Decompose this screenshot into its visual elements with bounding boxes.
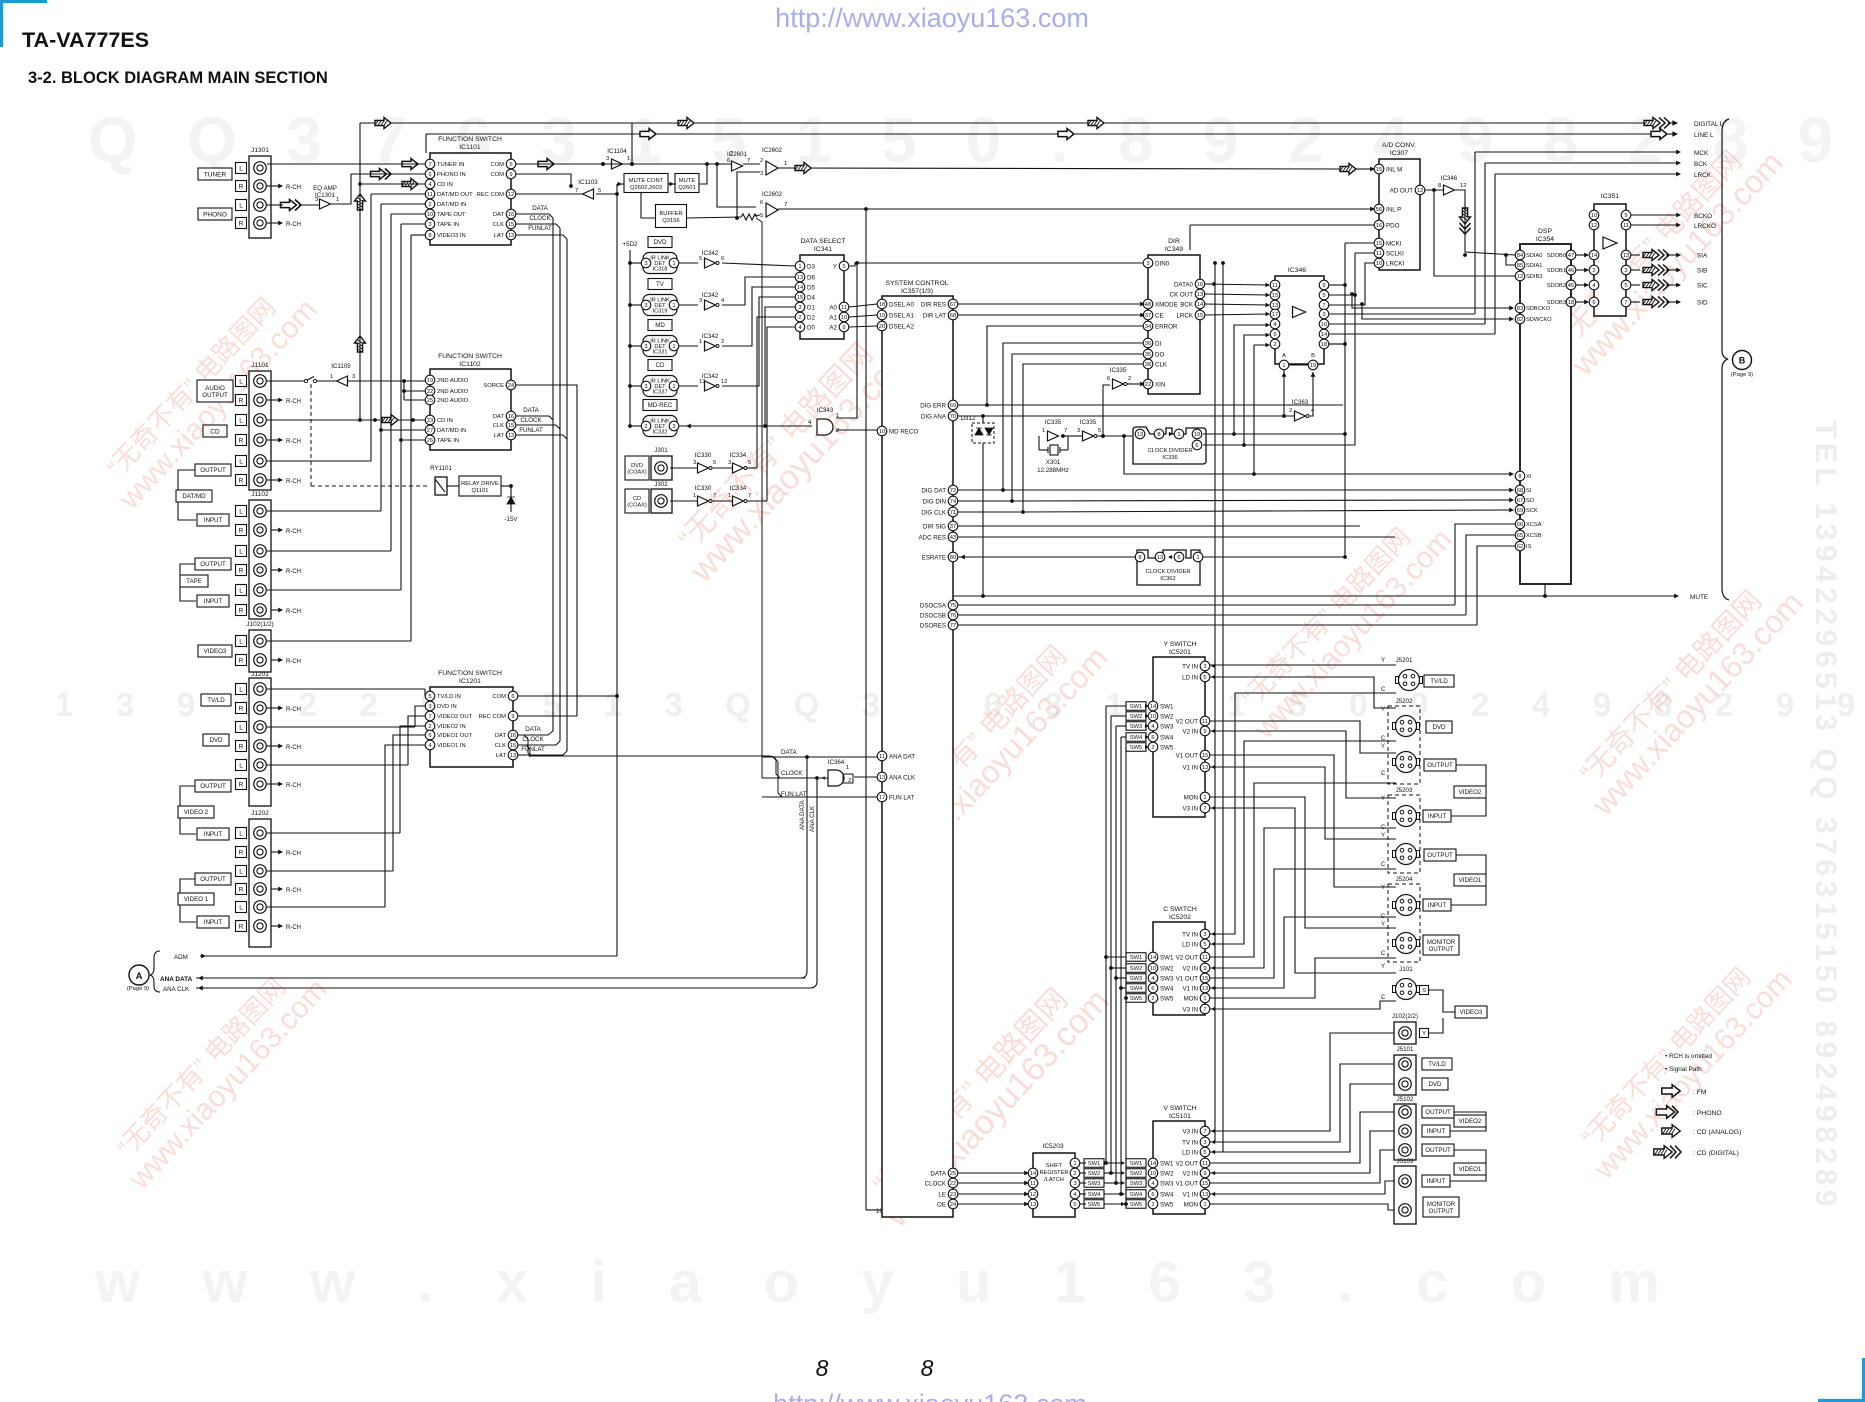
svg-text:14: 14 xyxy=(797,285,804,291)
svg-text:SW1: SW1 xyxy=(1160,703,1174,710)
wire R-CH xyxy=(267,925,280,927)
svg-text:CD: CD xyxy=(656,362,665,369)
ir link det IC337 xyxy=(630,385,643,387)
svg-text:SW2: SW2 xyxy=(1160,1170,1174,1177)
pin 34 ERROR xyxy=(1143,321,1153,331)
svg-text:1: 1 xyxy=(330,374,333,380)
svg-text:13: 13 xyxy=(1202,986,1208,992)
svg-text:Y: Y xyxy=(1381,964,1385,970)
svg-text:5: 5 xyxy=(713,460,716,466)
pin 10/9 xyxy=(1589,210,1599,220)
svg-text:SW1: SW1 xyxy=(1160,954,1174,961)
svg-text:D6: D6 xyxy=(807,274,815,281)
svg-text:12: 12 xyxy=(1460,183,1466,189)
svg-text:3: 3 xyxy=(428,704,431,710)
svg-text:MONITOR: MONITOR xyxy=(1427,940,1456,946)
svg-text:R-CH: R-CH xyxy=(286,783,301,789)
svg-text:MD-REC: MD-REC xyxy=(648,402,673,409)
node L xyxy=(236,902,247,913)
svg-text:3: 3 xyxy=(644,344,647,350)
wire y path xyxy=(1210,808,1396,973)
wire R-CH xyxy=(267,659,280,661)
svg-text:SCK: SCK xyxy=(1526,508,1538,514)
svg-text:FUN LAT: FUN LAT xyxy=(889,794,915,801)
bracket page B xyxy=(1722,119,1729,600)
svg-text:V1 IN: V1 IN xyxy=(1183,1191,1198,1198)
pin 13 V1 IN xyxy=(1200,983,1210,993)
svg-text:http://www.xiaoyu163.com: http://www.xiaoyu163.com xyxy=(773,1389,1087,1402)
svg-text:A/D CONV.: A/D CONV. xyxy=(1382,142,1416,149)
svg-text:1: 1 xyxy=(798,264,801,270)
svg-text:SDOB0: SDOB0 xyxy=(1547,253,1566,259)
svg-text:7: 7 xyxy=(747,158,750,164)
pin 6 SW4 xyxy=(1148,1189,1158,1199)
node SW2 xyxy=(1126,964,1146,973)
svg-text:XMODE: XMODE xyxy=(1155,301,1178,308)
svg-text:J102(2/2): J102(2/2) xyxy=(1392,1013,1418,1020)
svg-text:15: 15 xyxy=(508,222,514,228)
svg-text:DI: DI xyxy=(1155,340,1161,347)
svg-text:VIDEO2: VIDEO2 xyxy=(1459,789,1482,796)
svg-text:8: 8 xyxy=(921,1355,934,1381)
wire j302 xyxy=(670,500,697,502)
svg-text:1: 1 xyxy=(846,765,849,771)
svg-text:XI: XI xyxy=(1526,474,1532,480)
svg-text:IC364: IC364 xyxy=(828,759,845,766)
wire 2nd audio pins xyxy=(404,380,425,382)
svg-text:DATA: DATA xyxy=(525,726,541,733)
svg-text:7: 7 xyxy=(713,493,716,499)
svg-text:J5203: J5203 xyxy=(1396,787,1413,794)
node L xyxy=(236,506,247,517)
pin 37 CE xyxy=(1143,310,1153,320)
legend CD DIGITAL xyxy=(1654,1146,1681,1159)
svg-text:2ND AUDIO: 2ND AUDIO xyxy=(437,389,469,395)
wire adout xyxy=(1425,189,1443,191)
svg-text:L: L xyxy=(239,904,243,911)
svg-text:R-CH: R-CH xyxy=(286,479,301,485)
pin 15/5 xyxy=(1270,290,1280,300)
svg-text:18: 18 xyxy=(1568,300,1574,306)
svg-text:DAT: DAT xyxy=(495,733,507,739)
svg-text:77: 77 xyxy=(950,623,956,629)
svg-text:17: 17 xyxy=(1272,312,1278,318)
pin 2 D2 xyxy=(795,312,805,322)
svg-text:V2 OUT: V2 OUT xyxy=(1176,954,1199,961)
svg-text:3: 3 xyxy=(1624,268,1627,274)
svg-text:43: 43 xyxy=(950,535,956,541)
node MD-REC xyxy=(643,400,677,411)
pin 14 BCK xyxy=(1195,299,1205,309)
svg-text:ERROR: ERROR xyxy=(1155,323,1178,330)
svg-text:6: 6 xyxy=(760,200,763,206)
node L xyxy=(236,415,247,426)
svg-text:15: 15 xyxy=(1376,241,1382,247)
wire BCK xyxy=(1485,162,1678,164)
signal arrow PHONO eqamp xyxy=(281,200,302,211)
svg-text:16: 16 xyxy=(1321,322,1327,328)
wire c path xyxy=(1210,828,1396,968)
node SW3 xyxy=(1126,722,1146,731)
svg-text:VIDEO3: VIDEO3 xyxy=(1460,1009,1483,1016)
svg-text:IC307: IC307 xyxy=(1390,150,1408,157)
pin 16 DAT xyxy=(508,730,518,740)
svg-text:IC319: IC319 xyxy=(653,309,668,315)
svg-text:Y: Y xyxy=(1381,833,1385,839)
svg-text:5: 5 xyxy=(699,256,702,262)
buffer IC342 IC318 xyxy=(679,262,698,264)
wire stubs to IC1101 xyxy=(360,183,425,185)
svg-text:3: 3 xyxy=(644,261,647,267)
node AUDIO OUTPUT xyxy=(197,380,233,402)
wire R-CH xyxy=(267,399,280,401)
svg-text:A: A xyxy=(136,971,143,982)
svg-text:1: 1 xyxy=(1073,1161,1076,1167)
pin 12 SDIB3 xyxy=(1515,271,1525,281)
pin 14 xyxy=(1028,1168,1038,1178)
node OUTPUT dat xyxy=(195,464,231,476)
svg-text:74: 74 xyxy=(950,499,957,505)
svg-text:1: 1 xyxy=(728,493,731,499)
pin 15 INL M xyxy=(1374,164,1384,174)
svg-text:45: 45 xyxy=(1568,283,1574,289)
pin 80 ESRATE xyxy=(948,552,958,562)
pin 14 SW1 xyxy=(1148,952,1158,962)
svg-text:J5102: J5102 xyxy=(1397,1096,1414,1103)
svg-text:L: L xyxy=(239,762,243,769)
pin 68 DIR LAT xyxy=(948,310,958,320)
resistor R xyxy=(741,214,757,220)
ir link det IC331 xyxy=(630,345,643,347)
pin 43 ADC RES xyxy=(948,532,958,542)
svg-text:62: 62 xyxy=(1517,544,1523,550)
svg-text:REC COM: REC COM xyxy=(477,192,505,198)
svg-text:2: 2 xyxy=(730,151,733,157)
node R xyxy=(236,779,247,790)
pin 10 MD RECO xyxy=(877,426,887,436)
node CD xyxy=(648,360,672,371)
svg-text:3-2. BLOCK DIAGRAM MAIN SECTIO: 3-2. BLOCK DIAGRAM MAIN SECTION xyxy=(28,69,328,87)
pin 4 D0 xyxy=(795,322,805,332)
wire inlp net to pin 16 xyxy=(864,207,868,211)
svg-text:DATA: DATA xyxy=(930,1170,946,1177)
svg-text:L: L xyxy=(239,724,243,731)
svg-text:12: 12 xyxy=(1030,1192,1036,1198)
svg-text:1: 1 xyxy=(336,197,339,203)
svg-text:J1102: J1102 xyxy=(251,491,269,498)
svg-text:6: 6 xyxy=(1592,300,1595,306)
svg-text:DSEL A0: DSEL A0 xyxy=(889,301,914,308)
svg-text:L: L xyxy=(239,508,243,515)
wire DIG DAT/DIN/CLK xyxy=(958,489,1003,491)
pin 3 TAPE IN xyxy=(425,219,435,229)
svg-text:CLK: CLK xyxy=(493,423,504,429)
svg-text:VIDEO1 OUT: VIDEO1 OUT xyxy=(437,733,473,739)
pin 13 CK OUT xyxy=(1195,289,1205,299)
svg-text:B: B xyxy=(1739,356,1746,366)
svg-text:SIC: SIC xyxy=(1697,282,1708,289)
svg-text:IC354: IC354 xyxy=(1536,236,1554,243)
svg-text:70: 70 xyxy=(950,414,956,420)
svg-text:2: 2 xyxy=(1151,996,1154,1002)
svg-text:SDIA0: SDIA0 xyxy=(1526,253,1542,259)
svg-text:V SWITCH: V SWITCH xyxy=(1163,1105,1196,1112)
svg-text:J302: J302 xyxy=(654,481,668,488)
node INPUT v1 xyxy=(197,916,229,928)
svg-text:8: 8 xyxy=(1138,555,1141,561)
node INPUT v2 xyxy=(197,828,229,840)
svg-text:SO: SO xyxy=(1526,498,1535,504)
svg-text:48: 48 xyxy=(1145,302,1151,308)
svg-text:XCSB: XCSB xyxy=(1526,533,1542,539)
pin 10 SW2 xyxy=(1148,963,1158,973)
svg-text:3: 3 xyxy=(1203,1140,1206,1146)
svg-text:5: 5 xyxy=(748,460,751,466)
svg-text:85: 85 xyxy=(1517,263,1523,269)
signal arrows on line bus xyxy=(640,129,656,140)
svg-text:83: 83 xyxy=(1517,306,1523,312)
pin 6 SW4 xyxy=(1148,983,1158,993)
pin 10 SW2 xyxy=(1148,1168,1158,1178)
svg-text:J5202: J5202 xyxy=(1396,698,1413,705)
svg-text:82: 82 xyxy=(1517,317,1523,323)
pin 11 SCLKI xyxy=(1374,248,1384,258)
svg-text:37: 37 xyxy=(1145,313,1151,319)
svg-text:CLK: CLK xyxy=(1155,361,1168,368)
svg-text:-15V: -15V xyxy=(504,516,518,523)
svg-text:INL P: INL P xyxy=(1386,206,1401,213)
pin 68 SI xyxy=(1515,485,1525,495)
svg-text:10: 10 xyxy=(427,212,433,218)
node DVD xyxy=(1426,721,1452,733)
svg-text:FUNCTION SWITCH: FUNCTION SWITCH xyxy=(438,353,502,360)
svg-text:C: C xyxy=(1381,995,1386,1001)
svg-text:IC362: IC362 xyxy=(1160,576,1175,582)
svg-text:18: 18 xyxy=(1321,342,1327,348)
svg-text:R: R xyxy=(239,183,244,190)
svg-text:2ND AUDIO: 2ND AUDIO xyxy=(437,398,469,404)
svg-text:DSOCSA: DSOCSA xyxy=(920,602,947,609)
svg-text:J5103: J5103 xyxy=(1397,1158,1414,1165)
svg-text:5: 5 xyxy=(760,213,763,219)
svg-text:CLOCK DIVIDER: CLOCK DIVIDER xyxy=(1147,448,1192,454)
wire c path xyxy=(1210,783,1396,957)
pin 22 CLOCK xyxy=(948,1178,958,1188)
wire +5D2 rail xyxy=(629,250,631,426)
pin 13 xyxy=(1028,1199,1038,1209)
pin 12 xyxy=(1028,1189,1038,1199)
pin 45 SDOB2 xyxy=(1566,280,1576,290)
pin 2 SW5 xyxy=(1148,1199,1158,1209)
pin 3 TV IN xyxy=(1200,1137,1210,1147)
pin 23 CD IN xyxy=(425,415,435,425)
pin 10 SW2 xyxy=(1148,711,1158,721)
wire v path xyxy=(1210,1112,1394,1163)
svg-text:1: 1 xyxy=(627,156,630,162)
svg-text:V3 IN: V3 IN xyxy=(1183,1128,1198,1135)
svg-text:L: L xyxy=(239,417,243,424)
svg-text:BCKO: BCKO xyxy=(1694,213,1712,220)
svg-text:DIGITAL L: DIGITAL L xyxy=(1694,121,1724,128)
wire hooks xyxy=(516,416,553,420)
svg-text:2: 2 xyxy=(1592,268,1595,274)
wire mute cont wiring xyxy=(617,183,624,185)
svg-text:SW3: SW3 xyxy=(1130,724,1143,730)
wire COM9 xyxy=(516,174,571,186)
svg-text:IC337: IC337 xyxy=(653,390,668,396)
buffer IC342 IC331 xyxy=(679,345,698,347)
svg-text:Q3156: Q3156 xyxy=(662,218,679,224)
ir link det IC332 xyxy=(630,425,643,427)
pin 25 DATA xyxy=(948,1168,958,1178)
pin 13 LAT xyxy=(506,430,516,440)
svg-text:34: 34 xyxy=(1145,324,1152,330)
svg-text:13: 13 xyxy=(1137,432,1143,438)
svg-text:VIDEO2 IN: VIDEO2 IN xyxy=(437,724,466,730)
pin 5 Y xyxy=(839,261,849,271)
svg-text:11: 11 xyxy=(1202,1161,1208,1167)
pin 15 MCKI xyxy=(1374,238,1384,248)
node R xyxy=(236,395,247,406)
wire R-CH xyxy=(267,745,280,747)
svg-text:SDOB3: SDOB3 xyxy=(1547,300,1566,306)
wire y path xyxy=(1210,731,1396,798)
svg-text:3: 3 xyxy=(699,298,702,304)
svg-text:R-CH: R-CH xyxy=(286,888,301,894)
pin 5 COM xyxy=(506,159,516,169)
node VIDEO3 xyxy=(1455,1006,1487,1018)
svg-text:Q2601: Q2601 xyxy=(678,185,695,191)
pin 13 V1 IN xyxy=(1200,762,1210,772)
wire COM5 bus xyxy=(516,163,612,165)
node CD xyxy=(203,425,227,437)
wire DSEL links xyxy=(849,304,877,307)
svg-text:13: 13 xyxy=(1202,765,1208,771)
svg-text:6: 6 xyxy=(1195,443,1198,449)
svg-text:9: 9 xyxy=(1203,1171,1206,1177)
node S xyxy=(1420,986,1429,995)
pin 6 COM xyxy=(508,691,518,701)
svg-text:IC342: IC342 xyxy=(702,292,719,299)
wire DIR to IC346 xyxy=(1205,284,1268,285)
svg-text:2: 2 xyxy=(760,158,763,164)
pin 2 SW5 xyxy=(1148,742,1158,752)
pin 17 FUN LAT xyxy=(877,792,887,802)
legend CD ANALOG xyxy=(1662,1125,1680,1138)
svg-text:7: 7 xyxy=(428,714,431,720)
node TAPE xyxy=(180,575,208,587)
svg-text:SW4: SW4 xyxy=(1130,1192,1143,1198)
svg-text:3: 3 xyxy=(760,171,763,177)
wire xin osc xyxy=(1103,385,1110,436)
wire c path xyxy=(1210,1001,1396,1009)
svg-text:SDOB2: SDOB2 xyxy=(1547,283,1566,289)
svg-text:DO: DO xyxy=(1155,351,1164,358)
pin 82 SDWCKO xyxy=(1515,314,1525,324)
node SW5 xyxy=(1126,743,1146,752)
svg-text:PHONO: PHONO xyxy=(203,211,227,218)
pin 7 V3 IN xyxy=(1200,1004,1210,1014)
svg-text:LRCK: LRCK xyxy=(1694,172,1712,179)
svg-text:TV/LD: TV/LD xyxy=(1428,1061,1446,1068)
svg-text:L: L xyxy=(239,686,243,693)
svg-text:DATA: DATA xyxy=(523,407,539,414)
svg-text:13: 13 xyxy=(1202,1192,1208,1198)
svg-text:OUTPUT: OUTPUT xyxy=(200,467,226,474)
signal arrow CD ic1102 xyxy=(267,419,380,421)
svg-text:R-CH: R-CH xyxy=(286,659,301,665)
svg-text:SW1: SW1 xyxy=(1160,1160,1174,1167)
svg-text:10: 10 xyxy=(1150,714,1156,720)
svg-text:2: 2 xyxy=(721,339,724,345)
svg-text:16: 16 xyxy=(510,733,516,739)
svg-text:SW4: SW4 xyxy=(1130,986,1143,992)
wire c path xyxy=(1210,869,1396,978)
svg-text:7: 7 xyxy=(748,493,751,499)
pin 9 COM xyxy=(506,169,516,179)
svg-text:CLOCK: CLOCK xyxy=(781,770,803,777)
svg-text:IC351: IC351 xyxy=(1601,193,1619,200)
svg-text:14: 14 xyxy=(1150,704,1157,710)
pin 69 SCK xyxy=(1515,505,1525,515)
svg-text:w w w . x i a o y u 1 6 3 . c: w w w . x i a o y u 1 6 3 . c o m xyxy=(94,1250,1660,1315)
wire ic346 outputs weave xyxy=(1345,242,1374,244)
svg-text:CD: CD xyxy=(633,496,641,502)
wire FUN LAT xyxy=(762,796,877,798)
node L xyxy=(236,163,247,174)
svg-text:D2: D2 xyxy=(807,314,815,321)
node MONITOR OUTPUT xyxy=(1423,1197,1459,1217)
pin 7 V3 IN xyxy=(1200,803,1210,813)
wire dsp bottom verticals xyxy=(1544,584,1546,596)
svg-text:6: 6 xyxy=(1151,1192,1154,1198)
svg-text:TA-VA777ES: TA-VA777ES xyxy=(22,28,149,52)
svg-text:7: 7 xyxy=(428,162,431,168)
wire vertical bundle mid xyxy=(552,218,554,731)
svg-text:VIDEO1: VIDEO1 xyxy=(1459,1166,1482,1173)
node R xyxy=(236,565,247,576)
svg-text:DAT/MD: DAT/MD xyxy=(182,493,206,500)
svg-text:OUTPUT: OUTPUT xyxy=(202,392,228,399)
pin 7 V3 IN xyxy=(1200,1126,1210,1136)
blue page corner bottom-right xyxy=(1818,1358,1865,1402)
svg-text:LD IN: LD IN xyxy=(1182,941,1198,948)
svg-text:14: 14 xyxy=(1321,332,1328,338)
svg-text:MUTE: MUTE xyxy=(1690,594,1708,601)
svg-text:75: 75 xyxy=(950,603,956,609)
svg-text:ANA DATA: ANA DATA xyxy=(799,799,806,830)
pin 2 DAT/MD IN xyxy=(425,199,435,209)
svg-text:6: 6 xyxy=(1273,332,1276,338)
svg-text:13: 13 xyxy=(508,233,514,239)
wire ic363 xyxy=(1283,370,1285,416)
pin 38 CLK xyxy=(1143,359,1153,369)
pin 15 CLK xyxy=(506,420,516,430)
node SW1 xyxy=(1126,1159,1146,1168)
svg-text:S: S xyxy=(1422,988,1426,994)
svg-text:1: 1 xyxy=(1203,1202,1206,1208)
node VIDEO2 xyxy=(1454,786,1486,798)
wire video1 bracket xyxy=(1456,855,1486,874)
wire SID xyxy=(1631,301,1640,303)
wire video1 bracket xyxy=(180,879,195,893)
svg-text:MON: MON xyxy=(1184,1201,1198,1208)
svg-text:6: 6 xyxy=(1151,735,1154,741)
svg-text:80: 80 xyxy=(950,555,956,561)
svg-text:CE: CE xyxy=(1155,312,1164,319)
svg-text:15: 15 xyxy=(1376,167,1382,173)
pin 20 DSEL A2 xyxy=(877,321,887,331)
